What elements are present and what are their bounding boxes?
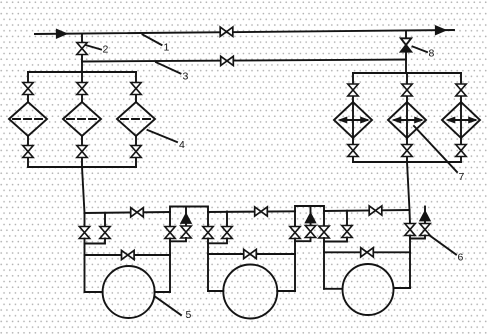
- wire: bypass line 1: [85, 254, 171, 256]
- wire: suction 3b rejoin: [324, 238, 347, 242]
- wire: branch 1 stubs: [352, 73, 354, 162]
- wire: suction drop a lower: [323, 238, 325, 289]
- wire: branch 3 stubs: [460, 73, 462, 162]
- wire: check branch stem unit 3: [424, 207, 426, 211]
- wire: manifold segment 2: [208, 210, 295, 213]
- wire: supply line 1: [35, 30, 454, 34]
- valve below check 2: [305, 226, 315, 238]
- check valve arrow unit 3: [420, 211, 431, 222]
- wire: suction drop a: [207, 212, 209, 227]
- wire: check branch mid stem: [185, 224, 187, 227]
- filter F2 dashed element: [67, 118, 98, 120]
- wire: suction 1b rejoin: [85, 239, 106, 244]
- wire: left group top header: [28, 71, 136, 73]
- filter F6 (diamond with through line): [442, 102, 480, 138]
- valve on manifold segment 2: [255, 207, 268, 216]
- pump P1: [103, 266, 155, 318]
- valve below filter F4: [348, 145, 358, 157]
- valve above filter F3: [131, 83, 141, 95]
- wire: branch 1 stubs: [27, 72, 29, 167]
- svg-text:8: 8: [429, 48, 435, 60]
- wire: check branch rejoin: [295, 238, 311, 242]
- valve below filter F5: [402, 145, 412, 157]
- valve on manifold segment 3: [369, 206, 382, 215]
- valve suction 1b: [100, 227, 110, 239]
- valve above filter F2: [77, 83, 87, 95]
- wire: branch 2 stubs: [81, 72, 83, 167]
- wire: left branch drop from line 1: [81, 34, 83, 72]
- filter F1 dashed element: [13, 118, 44, 120]
- filter F5 (diamond with through line): [388, 102, 426, 138]
- wire: bridge over pump 1 check valve: [170, 207, 208, 213]
- valve suction 2b: [222, 227, 232, 239]
- wire: pump 3 discharge stub: [394, 287, 411, 289]
- valve below filter F6: [456, 145, 466, 157]
- wire: manifold segment 1: [85, 212, 171, 213]
- wire: left group bottom header: [28, 166, 136, 168]
- wire: main riser unit 3: [409, 210, 412, 224]
- valve 2: [77, 43, 87, 55]
- wire: main riser lower: [409, 236, 411, 289]
- valve on bypass 3: [361, 248, 374, 257]
- valve below filter F3: [131, 146, 141, 158]
- wire: left group feed down to pump manifold: [82, 167, 85, 213]
- valve on line 3: [221, 56, 234, 65]
- valve below filter F1: [23, 146, 33, 158]
- valve below filter F2: [77, 146, 87, 158]
- valve discharge 1a: [165, 227, 175, 239]
- valve above filter F4: [348, 84, 358, 96]
- wire: check branch stem: [310, 206, 312, 213]
- valve discharge 2a: [290, 227, 300, 239]
- valve suction 3b: [342, 226, 352, 238]
- valve below check 1: [181, 226, 191, 238]
- check valve arrow unit 1: [181, 213, 192, 224]
- wire: check branch mid stem: [310, 223, 312, 226]
- svg-text:5: 5: [186, 309, 192, 321]
- filter F3 (diamond): [117, 102, 155, 136]
- valve on line 1: [220, 27, 233, 36]
- pump P3: [343, 264, 394, 315]
- valve suction 3a: [319, 226, 329, 238]
- wire: branch 2 stubs: [406, 73, 408, 162]
- wire: suction drop a: [84, 213, 86, 227]
- wire: right group top header: [353, 72, 461, 74]
- wire: pump 1 suction stub: [85, 291, 103, 293]
- label 7 leader: [414, 126, 457, 172]
- wire: suction drop b: [346, 211, 348, 226]
- wire: suction drop b: [104, 213, 106, 227]
- flow arrow on line 1 right: [435, 25, 446, 35]
- label 5 leader: [155, 297, 181, 316]
- label 4 leader: [148, 130, 178, 142]
- wire: suction drop a lower: [84, 239, 86, 293]
- wire: check branch stem: [185, 207, 187, 214]
- wire: bypass line 3: [324, 251, 410, 253]
- filter F4 arrow element: [341, 119, 368, 121]
- wire: right branch drop from line 1: [405, 31, 407, 74]
- wire: right group bottom header: [353, 161, 461, 163]
- svg-text:3: 3: [183, 71, 189, 83]
- label 6 leader: [429, 235, 456, 255]
- valve 8 (top outline triangle + bottom filled triangle): [401, 38, 411, 45]
- filter F5 arrow element: [395, 119, 422, 121]
- svg-text:2: 2: [103, 44, 109, 56]
- wire: discharge riser lower: [294, 239, 296, 292]
- label 8 leader: [413, 47, 428, 53]
- valve suction 1a: [79, 227, 89, 239]
- wire: bypass line 2: [208, 253, 295, 255]
- wire: right group feed down to pump manifold: [407, 162, 410, 210]
- label 2 leader: [86, 45, 102, 50]
- svg-text:1: 1: [164, 42, 170, 54]
- filter F4 (diamond with through line): [334, 102, 372, 138]
- valve on manifold segment 1: [131, 208, 144, 217]
- filter F3 dashed element: [121, 118, 152, 120]
- label 1 leader: [143, 35, 162, 45]
- wire: manifold segment 3: [324, 210, 410, 211]
- pump P2: [223, 265, 277, 319]
- valve on bypass 1: [122, 250, 135, 259]
- wire: discharge riser 1a: [169, 212, 171, 227]
- wire: pump 1 discharge stub: [155, 291, 170, 293]
- valve on bypass 2: [244, 249, 257, 258]
- filter F1 (diamond): [9, 102, 47, 136]
- wire: suction drop a: [323, 211, 325, 226]
- label 3 leader: [156, 62, 181, 73]
- svg-text:4: 4: [179, 139, 185, 151]
- flow arrow on line 1 left: [56, 29, 67, 39]
- valve suction 2a: [203, 227, 213, 239]
- wire: branch 3 stubs: [135, 72, 137, 167]
- valve above filter F6: [456, 84, 466, 96]
- wire: suction 2b rejoin: [208, 239, 227, 244]
- valve below check 3: [420, 224, 430, 236]
- wire: discharge riser lower: [169, 239, 171, 293]
- wire: line 3: [82, 60, 406, 62]
- filter F2 (diamond): [63, 102, 101, 136]
- wire: check branch rejoin: [410, 236, 425, 239]
- valve main riser 3: [405, 224, 415, 236]
- wire: pump 3 suction stub: [324, 288, 343, 290]
- check valve arrow unit 2: [305, 213, 316, 224]
- wire: bridge over pump 2 check valve: [295, 206, 324, 211]
- svg-text:7: 7: [459, 171, 465, 183]
- wire: check branch mid stem: [424, 221, 426, 224]
- wire: pump 2 discharge stub: [277, 290, 295, 292]
- wire: check branch rejoin: [170, 238, 186, 241]
- filter F6 arrow element: [449, 119, 476, 121]
- wire: suction drop b: [226, 212, 228, 227]
- svg-text:6: 6: [458, 252, 464, 264]
- wire: suction drop a lower: [207, 239, 209, 292]
- wire: discharge riser 2a: [294, 211, 296, 226]
- wire: pump 2 suction stub: [208, 290, 223, 292]
- valve above filter F5: [402, 84, 412, 96]
- valve above filter F1: [23, 83, 33, 95]
